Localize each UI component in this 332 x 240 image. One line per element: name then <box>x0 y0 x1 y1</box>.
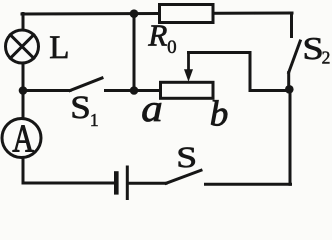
wire switch S to bottom right corner <box>206 183 291 186</box>
switch S blade <box>166 170 201 183</box>
switch S1 blade <box>70 78 102 91</box>
wire left rail upper (top corner to lamp) <box>22 14 25 31</box>
wire wiper down vertical <box>249 53 252 91</box>
label b <box>210 93 229 133</box>
lamp L circle <box>6 30 39 63</box>
label R0 <box>147 18 167 53</box>
wire top horizontal <box>22 13 292 14</box>
battery short plate (negative) <box>114 174 119 193</box>
node left junction <box>19 86 28 95</box>
node a junction <box>130 86 139 95</box>
svg-text:R: R <box>147 18 167 53</box>
rheostat wiper arrow head <box>184 69 193 82</box>
switch S2 lead below blade <box>287 73 290 90</box>
wire bottom left (corner to battery) <box>23 182 114 185</box>
svg-text:L: L <box>49 30 69 66</box>
wire junction down to ammeter <box>22 90 25 119</box>
node top junction <box>130 9 139 18</box>
label A ammeter <box>12 116 34 160</box>
wire junction to S1 <box>23 89 70 92</box>
svg-text:b: b <box>210 93 229 133</box>
switch S2 top contact <box>290 14 293 37</box>
rheostat body <box>161 82 214 98</box>
label a <box>141 87 162 129</box>
svg-text:S: S <box>176 141 197 174</box>
label S2 <box>302 31 323 66</box>
switch S2 blade <box>289 41 301 73</box>
wire middle vertical (top node to node a) <box>133 14 136 91</box>
wire right rail (corner up to S2 node) <box>289 89 292 184</box>
svg-text:S: S <box>302 31 323 66</box>
svg-text:S: S <box>70 89 91 126</box>
wire S1 to node a <box>106 89 135 92</box>
wire wiper horizontal <box>189 51 251 54</box>
battery long plate (positive) <box>126 167 129 200</box>
rheostat wiper arrow shaft <box>187 53 190 71</box>
wire ammeter to bottom corner <box>22 158 25 184</box>
svg-text:1: 1 <box>90 110 99 130</box>
node S2 junction <box>285 85 294 94</box>
resistor R0 body <box>160 5 214 23</box>
label L <box>49 30 69 66</box>
label S1 <box>70 89 91 126</box>
ammeter A circle <box>2 119 41 158</box>
svg-text:0: 0 <box>167 37 177 58</box>
wire lamp to junction <box>22 63 25 92</box>
lamp L cross <box>10 35 33 58</box>
svg-text:A: A <box>12 116 34 160</box>
wire to S2 node <box>250 89 289 92</box>
wire node a to rheostat <box>134 89 160 92</box>
wire battery to switch S <box>129 182 166 185</box>
svg-text:a: a <box>141 87 162 129</box>
svg-text:2: 2 <box>322 47 331 67</box>
label S <box>176 141 197 174</box>
